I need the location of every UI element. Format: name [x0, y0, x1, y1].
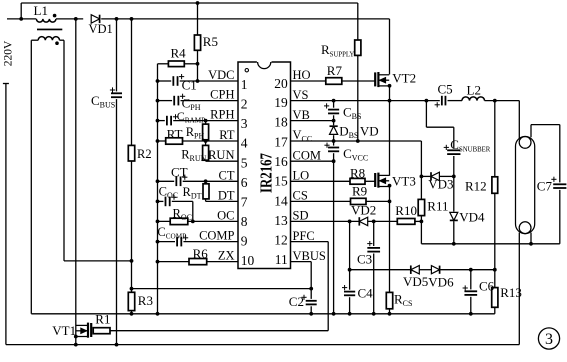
svg-text:R11: R11	[427, 199, 448, 214]
svg-text:R7: R7	[327, 63, 343, 78]
svg-text:8: 8	[241, 214, 248, 229]
svg-text:1: 1	[241, 77, 248, 92]
svg-text:C3: C3	[357, 251, 372, 266]
svg-text:CPH: CPH	[210, 88, 234, 102]
svg-text:RPH: RPH	[210, 108, 234, 122]
svg-text:19: 19	[274, 95, 288, 110]
svg-text:HO: HO	[293, 68, 311, 82]
svg-text:LO: LO	[293, 169, 310, 183]
svg-text:VB: VB	[293, 108, 310, 122]
svg-text:VT1: VT1	[52, 323, 76, 338]
svg-text:C1: C1	[182, 77, 197, 92]
svg-text:17: 17	[274, 134, 288, 149]
svg-text:R3: R3	[138, 293, 153, 308]
svg-text:C6: C6	[479, 279, 495, 294]
svg-text:C5: C5	[438, 81, 453, 96]
svg-text:VD2: VD2	[351, 203, 376, 218]
svg-text:VT2: VT2	[392, 70, 416, 85]
svg-text:SD: SD	[293, 209, 309, 223]
svg-text:CS: CS	[293, 189, 308, 203]
svg-text:16: 16	[274, 154, 288, 169]
svg-text:RT: RT	[219, 128, 235, 142]
svg-text:15: 15	[274, 174, 288, 189]
svg-text:VD4: VD4	[459, 209, 485, 224]
svg-text:R1: R1	[95, 312, 110, 327]
svg-text:R13: R13	[500, 285, 522, 300]
svg-text:220V: 220V	[2, 40, 14, 66]
svg-text:COMP: COMP	[199, 229, 234, 243]
svg-text:CT: CT	[219, 168, 235, 182]
svg-text:VD5: VD5	[403, 274, 428, 289]
svg-text:COM: COM	[293, 148, 321, 162]
svg-text:R12: R12	[465, 179, 487, 194]
svg-text:R10: R10	[395, 203, 417, 218]
svg-text:PFC: PFC	[293, 229, 315, 243]
svg-text:18: 18	[274, 115, 288, 130]
svg-text:IR2167: IR2167	[256, 153, 275, 193]
svg-text:6: 6	[241, 175, 248, 190]
svg-text:3: 3	[241, 116, 248, 131]
svg-text:VBUS: VBUS	[293, 249, 326, 263]
svg-text:VS: VS	[293, 88, 309, 102]
svg-text:C2: C2	[289, 294, 304, 309]
svg-text:R4: R4	[171, 46, 187, 61]
svg-text:C4: C4	[358, 285, 374, 300]
svg-text:CT: CT	[171, 165, 188, 180]
svg-text:9: 9	[241, 234, 248, 249]
svg-text:4: 4	[241, 136, 248, 151]
svg-text:R2: R2	[137, 147, 152, 161]
svg-text:14: 14	[274, 193, 288, 208]
svg-text:L1: L1	[34, 3, 48, 18]
svg-text:VD: VD	[360, 123, 379, 138]
svg-text:20: 20	[274, 76, 288, 91]
svg-text:C7: C7	[537, 179, 553, 194]
svg-text:DT: DT	[218, 188, 235, 202]
svg-text:2: 2	[241, 96, 248, 111]
svg-text:12: 12	[274, 232, 288, 247]
svg-text:R5: R5	[203, 34, 218, 49]
svg-text:3: 3	[545, 331, 553, 348]
svg-text:VDC: VDC	[208, 68, 234, 82]
svg-text:R6: R6	[193, 246, 209, 261]
svg-text:13: 13	[274, 213, 288, 228]
svg-text:R8: R8	[350, 166, 365, 181]
svg-text:RT: RT	[167, 127, 183, 142]
svg-text:VD3: VD3	[428, 177, 453, 192]
svg-text:OC: OC	[217, 208, 234, 222]
svg-text:10: 10	[241, 253, 255, 268]
svg-text:ZX: ZX	[218, 249, 235, 263]
svg-text:11: 11	[275, 252, 288, 267]
svg-text:VD1: VD1	[89, 22, 113, 36]
svg-text:L2: L2	[467, 82, 481, 97]
svg-text:5: 5	[241, 155, 248, 170]
svg-text:RUN: RUN	[208, 148, 234, 162]
svg-text:R9: R9	[352, 183, 367, 198]
svg-text:VT3: VT3	[392, 174, 416, 189]
svg-text:7: 7	[241, 194, 248, 209]
svg-text:VD6: VD6	[428, 275, 454, 290]
